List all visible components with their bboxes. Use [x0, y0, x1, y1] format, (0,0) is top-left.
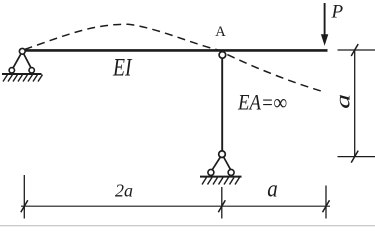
- svg-text:EA=∞: EA=∞: [237, 90, 287, 115]
- svg-text:2a: 2a: [115, 181, 133, 201]
- bottom dim: left extension line: [23, 175, 25, 219]
- left support ground line: [2, 73, 42, 75]
- right dim: bottom extension line: [338, 156, 375, 158]
- bottom roller support: apex hinge circle: [219, 151, 226, 158]
- beam (member EI): [25, 49, 328, 52]
- bottom roller support: left leg: [212, 157, 220, 170]
- bottom roller support: left roller: [208, 169, 214, 175]
- vertical member EA: [221, 58, 223, 151]
- bottom roller support: right leg: [224, 157, 231, 170]
- bottom dim: middle extension line: [221, 187, 223, 219]
- load P arrow shaft: [324, 3, 326, 36]
- dashed deflection curve: [25, 24, 322, 91]
- bottom dim: middle tick: [218, 200, 225, 212]
- bottom dim: right extension line: [325, 186, 327, 219]
- svg-text:EI: EI: [112, 53, 132, 82]
- bottom dim: right tick: [323, 200, 330, 212]
- right dim: top extension line: [338, 49, 375, 51]
- svg-text:P: P: [331, 1, 344, 22]
- left roller support: left leg: [13, 54, 21, 68]
- svg-text:a: a: [333, 94, 355, 109]
- right dim: top tick: [351, 44, 358, 56]
- left roller support: left roller: [9, 68, 14, 73]
- bottom support hatching: [202, 177, 240, 184]
- right dim: vertical dimension line: [354, 50, 356, 157]
- right dim: bottom tick: [351, 151, 358, 163]
- bottom support ground line: [200, 176, 242, 178]
- bottom roller support: right roller: [228, 169, 234, 175]
- faint scan line at bottom edge: [0, 225, 375, 227]
- hinge circle at node A: [219, 52, 226, 59]
- svg-text:a: a: [267, 177, 278, 203]
- left roller support: apex hinge circle: [19, 48, 25, 54]
- left support hatching: [3, 75, 43, 82]
- left roller support: right leg: [24, 54, 31, 68]
- left roller support: right roller: [29, 68, 34, 73]
- bottom dimension line: [21, 205, 330, 207]
- bottom dim: left tick: [21, 200, 28, 212]
- svg-text:A: A: [215, 24, 226, 40]
- load P arrowhead: [321, 34, 328, 46]
